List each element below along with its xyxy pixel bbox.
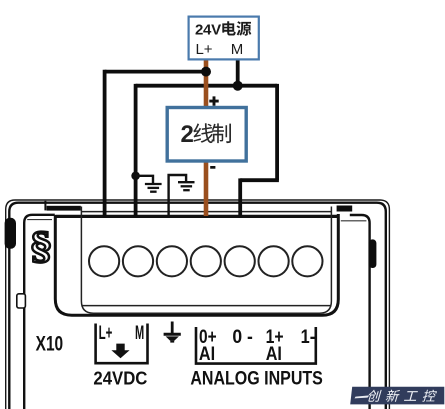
svg-text:L+: L+: [195, 41, 212, 58]
junction node on L+ rail: [201, 67, 211, 77]
logo leading dash: [355, 395, 370, 398]
svg-text:0 -: 0 -: [232, 326, 253, 348]
signal board outline right: [350, 215, 370, 409]
wire: right branch down: [275, 84, 279, 180]
minus polarity mark: [210, 166, 215, 169]
wire: M rail down to terminal 2: [134, 84, 138, 217]
signal board inner line right: [341, 220, 367, 222]
svg-text:24V: 24V: [195, 21, 221, 38]
slot latch black band right: [337, 206, 353, 212]
junction node ground tap: [131, 172, 140, 181]
slot bracket vertical: [44, 201, 46, 211]
left housing black clip tab: [5, 218, 16, 249]
terminal block inner thin outline: [81, 207, 331, 314]
svg-text:2: 2: [181, 121, 194, 148]
right housing black clip tab: [369, 239, 377, 268]
24V power supply box: [189, 17, 259, 60]
signal board inner line left: [27, 219, 52, 221]
2-wire transmitter box: [167, 108, 246, 162]
terminal block lip line: [82, 211, 332, 213]
vendor logo plate: [350, 387, 444, 405]
svg-text:X10: X10: [36, 333, 64, 356]
terminal block top thick edge: [55, 215, 338, 218]
slot latch black band left: [47, 206, 81, 211]
logo text 创新工控: [367, 390, 438, 402]
ground symbol 1 bars: [145, 184, 162, 192]
ground symbol 1 stub: [136, 176, 153, 183]
PLC outer housing outline thick: [9, 203, 386, 409]
left small latch rectangle: [17, 294, 26, 308]
svg-text:L+: L+: [99, 322, 113, 344]
svg-text:AI: AI: [266, 344, 282, 365]
junction node on M rail: [233, 81, 243, 91]
terminal screw circle 6: [259, 246, 289, 276]
terminal block inner bottom line: [81, 305, 331, 307]
functional earth terminal symbol: [164, 322, 181, 343]
svg-text:ANALOG INPUTS: ANALOG INPUTS: [190, 367, 323, 389]
spring clip icon: [32, 232, 50, 263]
terminal screw circle 2: [123, 246, 153, 276]
terminal screw circle 3: [157, 246, 187, 276]
PLC outer housing outline thin: [6, 200, 390, 409]
terminal screw circle 5: [225, 246, 255, 276]
wire: M from supply box: [236, 60, 240, 86]
terminal screw circle 4: [191, 246, 221, 276]
terminal screw circle 1: [89, 246, 119, 276]
signal board outline left: [24, 215, 55, 409]
svg-text:M: M: [135, 322, 144, 344]
svg-text:1-: 1-: [301, 326, 316, 348]
svg-text:M: M: [231, 41, 244, 58]
terminal group bracket 24VDC: [96, 324, 148, 364]
ground symbol 2 bars: [178, 182, 195, 190]
wire: L+ rail horizontal: [105, 70, 206, 74]
wire: right branch down to terminal 5: [238, 178, 242, 216]
svg-text:AI: AI: [199, 344, 215, 365]
plus polarity mark: [209, 96, 218, 105]
wire: L+ rail down to terminal 1: [103, 70, 107, 217]
wire: transmitter + lead (brown): [204, 60, 209, 109]
svg-text:24VDC: 24VDC: [93, 367, 147, 388]
wire: transmitter - lead to terminal 4 (brown): [204, 161, 209, 217]
terminal screw circle 7: [292, 246, 322, 276]
wire: M rail horizontal: [136, 84, 278, 88]
solid down arrow: [111, 344, 129, 359]
ground symbol 2 stem from terminal 3: [169, 175, 187, 217]
wire: right branch step left: [240, 178, 279, 182]
terminal group bracket ANALOG INPUTS: [196, 327, 316, 364]
terminal block outer shell: [55, 214, 338, 315]
